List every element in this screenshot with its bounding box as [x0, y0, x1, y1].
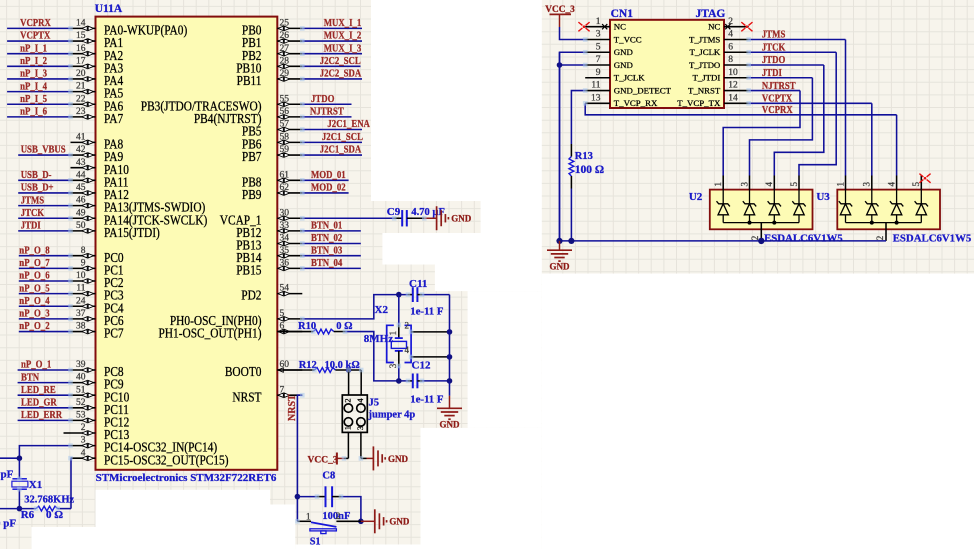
- svg-text:nP_I_3: nP_I_3: [20, 68, 47, 80]
- node junction bus/U2 stem: [758, 238, 764, 244]
- pin 2 NC (CN1 right): [708, 17, 749, 32]
- pin 26 PB1 (right): [242, 31, 302, 50]
- svg-text:4: 4: [405, 345, 410, 355]
- wire net J2C2_SDA: [302, 78, 362, 80]
- pin 27 PB2 (right): [242, 44, 302, 63]
- pin 53 PC12 (left): [71, 411, 130, 430]
- pin 4 PC15-OSC32_OUT(PC15) (left): [71, 448, 229, 467]
- svg-text:MOD_02: MOD_02: [311, 182, 346, 194]
- svg-text:4: 4: [886, 182, 896, 187]
- svg-text:1: 1: [835, 182, 845, 187]
- diode D2 in U2 (zener): [743, 190, 756, 223]
- wire net BTN_01: [302, 230, 361, 232]
- wire net MOD_02: [302, 192, 348, 194]
- pin 11 GND_DETECT (CN1 left): [585, 81, 671, 96]
- svg-text:MUX_I_1: MUX_I_1: [324, 17, 362, 29]
- IC U11A STM32F722RET6 body: [96, 17, 278, 470]
- no-ERC marker pin 1 (red X): [578, 22, 589, 31]
- svg-text:54: 54: [280, 284, 290, 294]
- wire net J2C1_SCL: [302, 141, 362, 143]
- wire net JTDO: [302, 103, 351, 105]
- node junction U3 rail a: [870, 221, 874, 225]
- svg-text:28: 28: [280, 56, 290, 66]
- node junction X2 pin3: [396, 378, 402, 384]
- pin 23 PA7 (left): [71, 107, 124, 126]
- pin 46 PA13(JTMS-SWDIO) (left): [71, 196, 206, 215]
- svg-text:NJTRST: NJTRST: [310, 106, 344, 118]
- pin 14 PA0-WKUP(PA0) (left): [71, 19, 188, 38]
- svg-text:S1: S1: [310, 537, 321, 548]
- svg-text:10.0 kΩ: 10.0 kΩ: [325, 360, 360, 371]
- svg-text:USB_VBUS: USB_VBUS: [21, 144, 66, 156]
- node junction U2 rail a: [748, 221, 752, 225]
- IC U3 ESDALC6V1W5 body (ESD diode array): [837, 190, 940, 230]
- wire NJTRST stair to U2 pin1: [723, 91, 800, 176]
- svg-text:nP_I_6: nP_I_6: [20, 106, 47, 118]
- wire net JTCK from CN1: [749, 51, 837, 53]
- wire J5 bottom legs: [347, 432, 349, 458]
- svg-text:56: 56: [280, 107, 290, 117]
- svg-text:7: 7: [280, 385, 285, 395]
- svg-text:6: 6: [728, 42, 733, 52]
- pin 4 U3 stub: [896, 176, 898, 190]
- wire net nP_O_5: [19, 293, 71, 295]
- svg-text:LED_GR: LED_GR: [21, 397, 58, 409]
- wire net LED_RE: [18, 394, 71, 396]
- svg-text:NRST: NRST: [232, 389, 261, 404]
- svg-text:35: 35: [280, 246, 290, 256]
- wire net nP_O_3: [19, 318, 71, 320]
- svg-text:GND: GND: [451, 214, 472, 224]
- svg-text:1: 1: [713, 182, 723, 187]
- pin 7 NRST (right): [232, 385, 302, 404]
- svg-text:5: 5: [789, 182, 799, 187]
- svg-text:STMicroelectronics STM32F722RE: STMicroelectronics STM32F722RET6: [96, 472, 277, 484]
- svg-text:nP_I_4: nP_I_4: [20, 81, 47, 93]
- wire net JTMS from CN1: [749, 38, 846, 40]
- IC U2 ESDALC6V1W5 body (ESD diode array): [710, 190, 813, 230]
- capacitor C12: [408, 374, 422, 389]
- no-ERC marker pin 2 (red X): [741, 22, 752, 31]
- pin 51 PC10 (left): [71, 385, 130, 404]
- svg-text:T_JCLK: T_JCLK: [690, 47, 721, 57]
- pin 20 PA4 (left): [71, 69, 124, 88]
- wire net JTDO from CN1: [749, 64, 824, 66]
- svg-text:pF: pF: [1, 468, 14, 480]
- off-sheet white regions: [371, 0, 542, 201]
- svg-text:USB_D+: USB_D+: [21, 182, 54, 194]
- svg-text:LED_ERR: LED_ERR: [21, 409, 63, 421]
- wire net JTDI from CN1: [749, 77, 813, 79]
- wire net nP_I_1: [7, 53, 70, 55]
- diode D3 in U3 (zener): [890, 190, 903, 223]
- svg-text:MOD_01: MOD_01: [311, 169, 346, 181]
- hotspot markers: [300, 216, 305, 221]
- svg-text:11: 11: [76, 284, 85, 294]
- svg-text:1: 1: [306, 513, 311, 523]
- wire C8 right down: [341, 497, 361, 522]
- crystal X2: [387, 325, 411, 362]
- svg-text:27: 27: [280, 44, 290, 54]
- svg-text:1e-11 F: 1e-11 F: [410, 306, 444, 318]
- svg-text:NJTRST: NJTRST: [762, 80, 796, 92]
- svg-text:49: 49: [76, 208, 86, 218]
- pin 37 PC6 (left): [71, 309, 124, 328]
- svg-text:25: 25: [280, 19, 290, 29]
- pin 10 T_JTDI (CN1 right): [692, 68, 748, 83]
- node junction X1 top: [17, 455, 23, 461]
- wire X2 pin 3 stem: [398, 351, 400, 366]
- pin 1 U3 stub: [845, 176, 847, 190]
- no-ERC marker U3 pin5 (red X): [919, 174, 930, 183]
- wire net J2C1_ENA: [302, 129, 362, 131]
- wire PH1/R10 to osc bottom: [345, 332, 408, 381]
- svg-text:2: 2: [342, 398, 352, 402]
- pin 4 X2 stub: [411, 356, 449, 358]
- svg-text:VCPTX: VCPTX: [20, 30, 50, 42]
- wire R6 to PC15: [70, 458, 73, 508]
- svg-text:T_VCP_TX: T_VCP_TX: [677, 98, 721, 108]
- svg-text:PD2: PD2: [241, 288, 261, 303]
- node junction rail bottom: [447, 378, 453, 384]
- pin 2 U3 stem: [885, 223, 887, 241]
- svg-text:MUX_I_2: MUX_I_2: [324, 30, 362, 42]
- svg-text:42: 42: [76, 145, 86, 155]
- pin 12 T_NRST (CN1 right): [688, 81, 749, 96]
- svg-text:9: 9: [596, 68, 601, 78]
- pin 61 PB8 (right): [242, 170, 302, 189]
- wire PH0 to osc top: [302, 295, 408, 319]
- svg-text:55: 55: [280, 94, 290, 104]
- pin 35 PB14 (right): [236, 246, 302, 265]
- svg-text:nP_O_7: nP_O_7: [19, 257, 49, 269]
- svg-text:J2C2_SDA: J2C2_SDA: [320, 68, 362, 80]
- diode D2 in U3 (zener): [865, 190, 878, 223]
- resistor R13: [570, 144, 572, 157]
- svg-text:13: 13: [591, 93, 601, 103]
- svg-text:VCPRX: VCPRX: [20, 17, 51, 29]
- wire U3 internal rail: [846, 222, 922, 224]
- connector J5 jumper 4p: [342, 395, 367, 432]
- wire net VCPRX: [7, 27, 70, 29]
- svg-text:20: 20: [76, 69, 86, 79]
- pin 40 PC9 (left): [71, 373, 124, 392]
- wire U2 internal rail: [723, 222, 799, 224]
- svg-text:GND: GND: [550, 262, 571, 272]
- node junction bus/R13: [568, 238, 574, 244]
- pin 58 PB6 (right): [242, 133, 302, 152]
- pin 9 T_JCLK (CN1 left): [585, 68, 645, 83]
- svg-text:14: 14: [728, 93, 738, 103]
- wire J5 top legs: [348, 370, 350, 395]
- svg-text:15: 15: [76, 31, 86, 41]
- svg-text:41: 41: [76, 133, 86, 143]
- wire net JTCK: [18, 217, 70, 219]
- ground GND right of J5: [361, 457, 367, 459]
- svg-text:0 Ω: 0 Ω: [46, 509, 63, 521]
- pin 14 T_VCP_TX (CN1 right): [677, 93, 748, 108]
- pin 13 T_VCP_RX (CN1 left): [585, 93, 658, 108]
- wire VCPTX down to U3 pin3: [871, 103, 873, 175]
- wire X1 top stem: [18, 458, 20, 478]
- node junction U2 rail b: [772, 221, 776, 225]
- svg-text:J2C1_ENA: J2C1_ENA: [327, 119, 370, 131]
- pin 8 T_JTDO (CN1 right): [689, 55, 749, 70]
- wire net nP_O_6: [19, 280, 71, 282]
- svg-text:GND_DETECT: GND_DETECT: [614, 85, 672, 95]
- wire net nP_I_2: [7, 65, 70, 67]
- svg-text:PH1-OSC_OUT(PH1): PH1-OSC_OUT(PH1): [158, 326, 261, 341]
- wire JTDI stair to U2 pin3: [750, 78, 813, 176]
- wire net MUX_I_2: [302, 40, 362, 42]
- pin 22 PA6 (left): [71, 94, 124, 113]
- pin 2 PC13 (left): [71, 423, 130, 442]
- wire PC14 to X1 (32kHz osc in): [19, 446, 70, 459]
- pin 5 PH0-OSC_IN(PH0) (right): [170, 309, 302, 328]
- diode D1 in U2 (zener): [717, 190, 730, 223]
- ground GND below CN1: [559, 241, 561, 250]
- capacitor C8: [297, 486, 341, 507]
- svg-text:1: 1: [342, 426, 352, 430]
- svg-text:BOOT0: BOOT0: [225, 364, 262, 379]
- svg-text:LED_RE: LED_RE: [21, 384, 56, 396]
- wire net nP_I_6: [7, 116, 70, 118]
- wire net MOD_01: [302, 179, 348, 181]
- svg-text:57: 57: [280, 120, 290, 130]
- pin 24 PC4 (left): [71, 296, 125, 315]
- svg-text:3: 3: [739, 182, 749, 187]
- svg-text:U2: U2: [689, 191, 703, 203]
- svg-text:53: 53: [76, 411, 86, 421]
- wire net nP_I_5: [7, 103, 70, 105]
- svg-text:U3: U3: [816, 191, 830, 203]
- pin 57 PB5 (right): [242, 120, 302, 139]
- wire left cap to X1 top node: [0, 457, 19, 459]
- svg-text:5: 5: [280, 309, 285, 319]
- svg-text:52: 52: [76, 398, 86, 408]
- svg-text:1: 1: [596, 17, 601, 27]
- svg-text:62: 62: [280, 183, 290, 193]
- svg-text:59: 59: [280, 145, 290, 155]
- svg-text:51: 51: [76, 385, 86, 395]
- pin 54 PD2 (right): [241, 284, 302, 303]
- svg-text:34: 34: [280, 234, 290, 244]
- svg-text:GND: GND: [388, 454, 409, 464]
- crystal X1: [12, 479, 28, 489]
- wire net MUX_I_3: [302, 53, 362, 55]
- node junction R12/J5: [346, 367, 352, 373]
- pin 3 U2 stub: [749, 176, 751, 190]
- ground GND right of S1: [361, 520, 375, 522]
- wire net LED_GR: [18, 407, 71, 409]
- pin 5 U2 stub: [798, 176, 800, 190]
- svg-text:2: 2: [405, 321, 410, 331]
- svg-text:GND: GND: [440, 420, 461, 430]
- pin 55 PB3(JTDO/TRACESWO) (right): [141, 94, 303, 113]
- svg-text:VCC_3: VCC_3: [308, 456, 338, 466]
- svg-text:nP_I_1: nP_I_1: [20, 43, 47, 55]
- svg-text:JTAG: JTAG: [696, 8, 726, 20]
- pin 4 U2 stub: [773, 176, 775, 190]
- wire NRST down: [297, 395, 302, 521]
- switch S1 pushbutton: [297, 521, 361, 533]
- pin 62 PB9 (right): [242, 183, 302, 202]
- no-connect X pin 2: [725, 24, 730, 29]
- svg-text:45: 45: [76, 183, 86, 193]
- svg-text:40: 40: [76, 373, 86, 383]
- ground GND under oscillator rail: [449, 381, 451, 396]
- svg-text:JTMS: JTMS: [21, 195, 44, 207]
- pin 45 PA12 (left): [71, 183, 129, 202]
- pin 39 PC8 (left): [71, 360, 124, 379]
- svg-text:CN1: CN1: [611, 8, 634, 20]
- pin 16 PA2 (left): [71, 44, 124, 63]
- svg-text:3: 3: [81, 436, 86, 446]
- svg-text:NRST: NRST: [287, 394, 298, 421]
- svg-text:JTMS: JTMS: [762, 29, 785, 41]
- pin 59 PB7 (right): [242, 145, 302, 164]
- svg-text:32.768KHz: 32.768KHz: [24, 495, 74, 506]
- pin 29 PB11 (right): [237, 69, 303, 88]
- svg-text:BTN_03: BTN_03: [311, 245, 342, 257]
- wire net JTDI: [18, 230, 70, 232]
- svg-text:PB9: PB9: [242, 187, 262, 202]
- wire net nP_O_2: [19, 331, 71, 333]
- svg-text:37: 37: [76, 309, 86, 319]
- svg-text:21: 21: [76, 82, 86, 92]
- svg-text:16: 16: [76, 44, 86, 54]
- diode D3 in U2 (zener): [768, 190, 781, 223]
- svg-text:T_JTMS: T_JTMS: [689, 34, 720, 44]
- svg-text:5: 5: [596, 42, 601, 52]
- svg-text:JTDI: JTDI: [21, 220, 41, 232]
- svg-text:PA7: PA7: [104, 111, 123, 126]
- svg-text:46: 46: [76, 196, 86, 206]
- capacitor C11: [408, 287, 422, 302]
- pin 2 X2 stub: [411, 331, 449, 333]
- svg-text:23: 23: [76, 107, 86, 117]
- svg-text:BTN_04: BTN_04: [311, 257, 342, 269]
- node junction X1 bottom / R6: [17, 506, 23, 512]
- wire JTMS down to U3 pin1: [845, 39, 847, 175]
- wire pin7 GND to rail: [560, 64, 586, 66]
- pin 6 T_JCLK (CN1 right): [690, 42, 749, 57]
- pin 1 U2 stub: [722, 176, 724, 190]
- node junction U3 rail b: [895, 221, 899, 225]
- pin 38 PC7 (left): [71, 322, 124, 341]
- svg-text:12: 12: [728, 81, 738, 91]
- wire VCC_3 to T_VCC: [560, 27, 586, 39]
- wire net NJTRST: [302, 116, 351, 118]
- svg-text:3: 3: [355, 426, 365, 430]
- svg-text:T_NRST: T_NRST: [688, 85, 721, 95]
- svg-text:nP_O_1: nP_O_1: [21, 359, 51, 371]
- pin 41 PA8 (left): [71, 133, 124, 152]
- svg-text:JTCK: JTCK: [21, 207, 45, 219]
- wire X1 bottom stem: [18, 489, 20, 508]
- svg-text:10: 10: [76, 271, 86, 281]
- svg-text:jumper 4p: jumper 4p: [368, 410, 416, 421]
- resistor R6: [19, 508, 36, 510]
- svg-text:R6: R6: [21, 509, 35, 521]
- svg-text:3: 3: [596, 30, 601, 40]
- svg-text:30: 30: [280, 208, 290, 218]
- node junction GND rail pin7: [557, 62, 563, 68]
- pin 3 T_VCC (CN1 left): [585, 30, 642, 45]
- svg-text:10: 10: [728, 68, 738, 78]
- wire net J2C2_SCL: [302, 65, 360, 67]
- svg-text:36: 36: [280, 258, 290, 268]
- diode D4 in U2 (zener): [792, 190, 805, 223]
- svg-text:GND: GND: [614, 47, 633, 57]
- svg-text:NC: NC: [614, 22, 626, 32]
- pin 1 NC (CN1 left): [585, 17, 626, 32]
- svg-text:PB7: PB7: [242, 149, 262, 164]
- no-connect X pin 1: [602, 24, 607, 29]
- svg-text:PC7: PC7: [104, 326, 124, 341]
- svg-text:T_JTDO: T_JTDO: [689, 60, 720, 70]
- svg-text:1e-11 F: 1e-11 F: [410, 394, 444, 406]
- svg-text:58: 58: [280, 133, 290, 143]
- svg-text:PC15-OSC32_OUT(PC15): PC15-OSC32_OUT(PC15): [104, 452, 229, 467]
- svg-text:JTDI: JTDI: [762, 67, 782, 79]
- wire gnd bus bottom: [559, 52, 561, 241]
- wire net nP_I_3: [7, 78, 70, 80]
- pin 2 U2 stem: [760, 223, 762, 241]
- pin 17 PA3 (left): [71, 56, 124, 75]
- resistor R10: [277, 331, 313, 333]
- svg-text:nP_I_2: nP_I_2: [20, 55, 47, 67]
- pin 25 PB0 (right): [242, 19, 302, 38]
- svg-text:C12: C12: [412, 359, 431, 371]
- svg-text:14: 14: [76, 19, 86, 29]
- pin 15 PA1 (left): [71, 31, 124, 50]
- svg-text:T_VCP_RX: T_VCP_RX: [614, 98, 658, 108]
- pin 9 PC1 (left): [71, 258, 124, 277]
- svg-text:USB_D-: USB_D-: [21, 169, 52, 181]
- svg-text:VCC_3: VCC_3: [545, 5, 575, 15]
- pin 33 PB12 (right): [236, 221, 302, 240]
- node junction bus/gnd stem: [556, 238, 562, 244]
- wire JTDO stair to U2 pin4: [774, 65, 824, 175]
- pin 50 PA15(JTDI) (left): [71, 221, 160, 240]
- svg-text:J2C1_SCL: J2C1_SCL: [322, 131, 363, 143]
- svg-text:VCPTX: VCPTX: [762, 93, 792, 105]
- svg-text:11: 11: [591, 81, 600, 91]
- svg-text:PA15(JTDI): PA15(JTDI): [104, 225, 160, 240]
- wire GND rail (pin5/pin7) down: [560, 52, 586, 241]
- ground GND at C9: [424, 217, 436, 219]
- svg-text:6: 6: [280, 322, 285, 332]
- pin 6 PH1-OSC_OUT(PH1) (right): [158, 322, 302, 341]
- svg-text:ESDALC6V1W5: ESDALC6V1W5: [764, 232, 843, 244]
- node junction X2 pin4 rail: [447, 354, 453, 360]
- svg-text:0 pF: 0 pF: [0, 517, 16, 529]
- wire net nP_O_4: [19, 305, 71, 307]
- pin 7 GND (CN1 left): [585, 55, 633, 70]
- svg-text:T_JTDI: T_JTDI: [692, 73, 720, 83]
- svg-text:ESDALC6V1W5: ESDALC6V1W5: [893, 232, 972, 244]
- svg-text:nP_I_5: nP_I_5: [20, 93, 47, 105]
- svg-text:VCPRX: VCPRX: [762, 104, 793, 116]
- svg-text:44: 44: [76, 170, 86, 180]
- wire osc right rail: [449, 295, 451, 381]
- svg-text:2: 2: [875, 236, 885, 241]
- svg-text:BTN: BTN: [21, 372, 39, 384]
- pin 56 PB4(NJTRST) (right): [194, 107, 302, 126]
- pin 8 PC0 (left): [71, 246, 124, 265]
- diode D1 in U3 (zener): [839, 190, 852, 223]
